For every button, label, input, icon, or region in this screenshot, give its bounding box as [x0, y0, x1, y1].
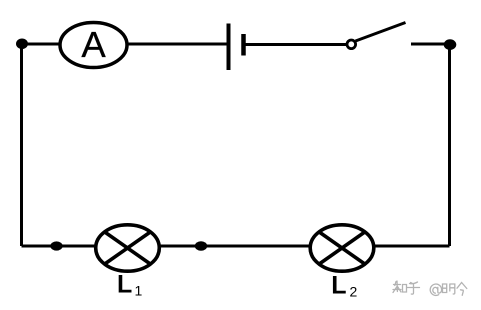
battery short plate (negative): [241, 34, 246, 56]
今: [457, 283, 467, 296]
乎: [408, 282, 420, 294]
wire switch to top-right node: [411, 43, 450, 46]
svg-text:A: A: [81, 24, 106, 65]
battery long plate (positive): [227, 24, 231, 71]
node top-right junction dot: [444, 39, 457, 50]
svg-text:2: 2: [350, 284, 358, 300]
node top-left junction dot: [16, 39, 28, 50]
wire bottom horizontal: [22, 245, 450, 248]
svg-text:L: L: [331, 271, 346, 299]
node bottom-left junction dot: [50, 241, 62, 250]
switch S1 lever: [356, 23, 406, 42]
ammeter A1: [60, 23, 127, 68]
@: [430, 284, 441, 295]
svg-text:1: 1: [135, 283, 143, 299]
wire left vertical: [20, 44, 23, 246]
wire right vertical: [448, 44, 451, 246]
wire top horizontal (left node to battery): [22, 43, 227, 46]
svg-text:L: L: [117, 271, 132, 299]
wire battery to switch: [243, 43, 348, 46]
lamp L1: [96, 225, 160, 271]
lamp L2: [310, 225, 374, 271]
watermark 知乎 @明今 (hand-drawn glyphs): [393, 281, 467, 295]
node bottom-middle junction dot: [195, 241, 207, 251]
switch S1 pivot: [347, 40, 356, 49]
知: [393, 281, 401, 293]
明: [443, 284, 447, 293]
